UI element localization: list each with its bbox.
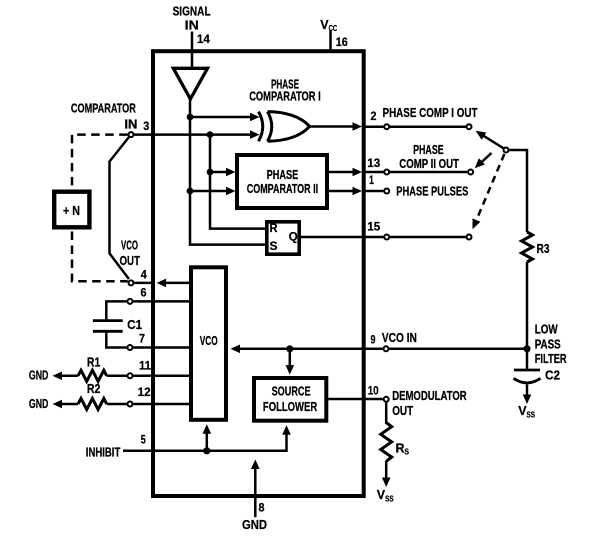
arrowhead into XOR bottom input [250,130,260,139]
arrowhead into source follower bottom [282,425,291,435]
wire source follower output to pin 10 [328,398,383,401]
pin 8 label [259,501,265,515]
wire Rs to Vss arrow [382,461,391,487]
svg-text:C1: C1 [127,318,142,332]
wire pin6 to VCO [133,300,189,303]
label PHASE PULSES [396,184,468,198]
wire Vcc pin 16 [329,31,332,52]
wire VCO to pin4 with arrowhead [157,279,189,288]
switch alternate arrow to pin13 terminal [475,153,492,168]
divider box +N [54,192,89,228]
svg-text:Q: Q [289,229,298,243]
svg-text:2: 2 [371,109,377,123]
svg-text:COMPARATOR: COMPARATOR [71,101,136,115]
svg-text:VCO: VCO [200,334,218,348]
svg-text:R: R [270,221,278,235]
svg-text:PHASE: PHASE [413,143,444,157]
pin 10 label [368,384,379,398]
wire feedback pin3 to pin4 (VCO OUT path) [110,137,129,279]
label SIGNAL IN [173,5,211,33]
arrowhead pin 8 into IC [251,460,260,470]
RS flip-flop U2 [267,222,299,254]
wire R3 to low pass filter node [526,262,529,370]
pin 1 circle [384,189,389,194]
label C1 [127,318,142,332]
wire pin13 circle to terminal [390,171,467,174]
svg-text:9: 9 [371,332,376,346]
wire R2 to pin 12 [107,403,127,406]
svg-text:S: S [270,239,278,253]
pin 6 label [141,285,147,299]
capacitor C2 [514,370,541,383]
arrowhead into VCO right edge [231,345,241,354]
label PHASE COMPARATOR II [247,168,319,196]
pin 15 label [367,220,380,234]
label GND R1 [29,369,49,383]
pin 13 label [367,156,380,170]
wire pin9 to filter node [389,348,527,351]
label PHASE COMP I OUT [383,106,478,120]
svg-text:DEMODULATOR: DEMODULATOR [392,389,467,403]
junction node on pin3 line [207,131,214,138]
svg-text:PHASE COMP I OUT: PHASE COMP I OUT [383,106,478,120]
svg-text:R1: R1 [87,355,101,369]
wire C1 to pin7 [106,331,126,347]
wire branch to XOR top input [190,116,252,119]
junction node comp II top input branch [207,169,214,176]
wire IC edge to pin1 circle [366,190,384,193]
svg-text:C2: C2 [545,369,560,383]
wire signal-in to amplifier [191,32,194,69]
wire C2 to Vss arrow [523,385,532,405]
pin 16 label [336,35,348,49]
switch wiper arrow to pin2 terminal [476,131,504,148]
label Vss below C2 [518,404,535,419]
svg-text:VCO IN: VCO IN [382,331,417,345]
wire pin6 to C1 [106,301,126,320]
svg-text:R3: R3 [537,242,550,256]
resistor Rs [381,423,392,462]
pin 7 label [139,331,145,345]
pin 4 label [141,268,147,282]
svg-text:5: 5 [141,433,146,447]
label COMPARATOR IN [71,101,137,131]
svg-text:3: 3 [143,119,149,133]
wire pin12 to VCO [133,403,189,406]
arrowhead into comp II bottom input [226,187,236,196]
pin2 open terminal circle [467,124,472,129]
pin 11 label [139,358,151,372]
svg-text:7: 7 [139,331,145,345]
pin 6 circle [128,299,133,304]
svg-text:11: 11 [139,358,151,372]
pin 3 label [143,119,149,133]
label R [270,221,278,235]
svg-text:GND: GND [29,369,49,383]
svg-text:COMPARATOR II: COMPARATOR II [247,182,319,196]
arrowhead at pin 1 inner edge [353,187,363,196]
dashed wire pin3 to divider [72,135,128,188]
wire Q output to pin 15 [301,236,383,239]
label SOURCE FOLLOWER [263,384,317,414]
pin 1 label [369,173,374,187]
GND arrowhead R2 [53,400,79,409]
pin 2 label [371,109,377,123]
arrowhead at pin 13 inner edge [353,168,363,177]
wire inhibit pin 5 [123,433,287,451]
svg-text:+ N: + N [63,204,80,218]
svg-text:INHIBIT: INHIBIT [86,445,121,459]
wire amplifier output down to S input [190,98,266,245]
resistor R1 [78,370,107,381]
wire branch to comp II top input [210,171,227,174]
wire pin15 circle to terminal [390,236,466,239]
svg-text:OUT: OUT [120,254,141,268]
wire comp II output pin 1 [329,190,354,193]
svg-text:PASS: PASS [535,338,561,352]
pin 11 circle [128,373,133,378]
pin 9 label [371,332,376,346]
pin 4 circle [129,280,134,285]
wire inhibit branch to VCO bottom [206,433,209,451]
GND arrowhead R1 [53,372,79,381]
pin 13 circle [384,170,389,175]
pin 2 circle [384,124,389,129]
arrowhead into XOR top input [250,113,260,122]
switch common node circle [504,148,509,153]
svg-text:COMP II OUT: COMP II OUT [399,157,459,171]
svg-text:IN: IN [124,117,137,131]
svg-text:FILTER: FILTER [535,352,567,366]
junction node low pass filter [523,345,530,352]
source follower box [254,378,326,421]
label +N [63,204,80,218]
svg-text:14: 14 [197,32,210,46]
label INHIBIT [86,445,121,459]
wire IC edge to pin2 circle [366,125,384,128]
pin 14 label [197,32,210,46]
wire comparator-in branch down to R input [210,135,266,229]
label GND R2 [29,397,49,411]
amplifier A1 (input buffer triangle) [173,68,207,99]
pin 15 circle [384,235,389,240]
IC package outline U1 [153,51,364,496]
arrowhead into comp II top input [226,168,236,177]
phase comparator II box [237,155,327,208]
wire pin11 to VCO [133,375,189,378]
resistor R2 [78,399,107,410]
svg-text:10: 10 [368,384,379,398]
wire pin7 to VCO [133,346,189,349]
svg-text:VCO: VCO [121,239,138,253]
junction node XOR top input branch [187,114,194,121]
pin 12 circle [128,402,133,407]
svg-text:GND: GND [29,397,49,411]
wire pin10 down to Rs [385,403,388,424]
label DEMODULATOR OUT [392,389,467,418]
svg-text:PHASE: PHASE [267,168,299,182]
pin13 open terminal circle [468,170,473,175]
svg-text:SIGNAL: SIGNAL [173,5,211,19]
svg-text:GND: GND [242,518,267,532]
svg-text:13: 13 [367,156,380,170]
svg-text:4: 4 [141,268,147,282]
junction node source follower branch [286,345,293,352]
switch dashed arrow to pin15 terminal [473,154,505,229]
label Vcc [320,18,337,33]
wire branch to comp II bottom input [190,190,227,193]
svg-text:LOW: LOW [535,323,558,337]
wire switch node to R3 [509,150,527,232]
label Rs [396,441,410,456]
wire branch down to source follower [289,349,292,367]
svg-text:IN: IN [185,18,199,32]
junction node inhibit to VCO [203,447,210,454]
svg-text:1: 1 [369,173,374,187]
resistor R3 [522,232,533,262]
junction node comp II bottom input branch [187,188,194,195]
dashed wire divider to pin4 [72,232,128,282]
label VCO [200,334,218,348]
pin 7 circle [128,345,133,350]
svg-text:12: 12 [138,385,151,399]
wire GND pin 8 [254,469,257,517]
pin15 open terminal circle [467,235,472,240]
arrowhead into VCO bottom [203,424,212,434]
label R1 [87,355,101,369]
wire comp II output pin 13 [329,171,354,174]
label PHASE COMP II OUT [399,143,459,171]
svg-text:R2: R2 [87,382,101,396]
label R3 [537,242,550,256]
XOR gate phase comparator I [259,112,310,142]
label GND bottom [242,518,267,532]
svg-text:COMPARATOR I: COMPARATOR I [249,90,321,104]
wire pin9 into IC to VCO [240,348,383,351]
wire XOR output to pin 2 [310,125,354,128]
pin 12 label [138,385,151,399]
label VCO OUT [120,239,141,269]
label Vss below Rs [377,488,394,503]
label LOW PASS FILTER [535,323,567,367]
svg-text:OUT: OUT [392,404,413,418]
label R2 [87,382,101,396]
svg-text:FOLLOWER: FOLLOWER [263,400,317,414]
svg-text:6: 6 [141,285,147,299]
VCO box [191,267,226,420]
svg-text:SOURCE: SOURCE [272,384,311,398]
pin 9 circle [384,346,389,351]
wire pin2 circle to terminal [390,125,466,128]
label C2 [545,369,560,383]
svg-text:16: 16 [336,35,348,49]
pin 5 label [141,433,146,447]
label S [270,239,278,253]
svg-text:8: 8 [259,501,265,515]
wire pin3 to XOR bottom input [134,133,251,136]
wire pin4 circle to IC edge [134,282,153,285]
svg-text:15: 15 [367,220,380,234]
capacitor C1 [93,321,123,332]
label VCO IN [382,331,417,345]
label Q [289,229,298,243]
label PHASE COMPARATOR I [249,78,321,104]
wire R1 to pin 11 [107,375,127,378]
arrowhead at pin 2 inner edge [353,122,363,131]
arrowhead into source follower top [286,365,295,375]
pin 10 circle [384,397,389,402]
wire IC edge to pin13 circle [366,171,384,174]
pin 3 terminal circle [129,132,134,137]
svg-text:PHASE PULSES: PHASE PULSES [396,184,468,198]
